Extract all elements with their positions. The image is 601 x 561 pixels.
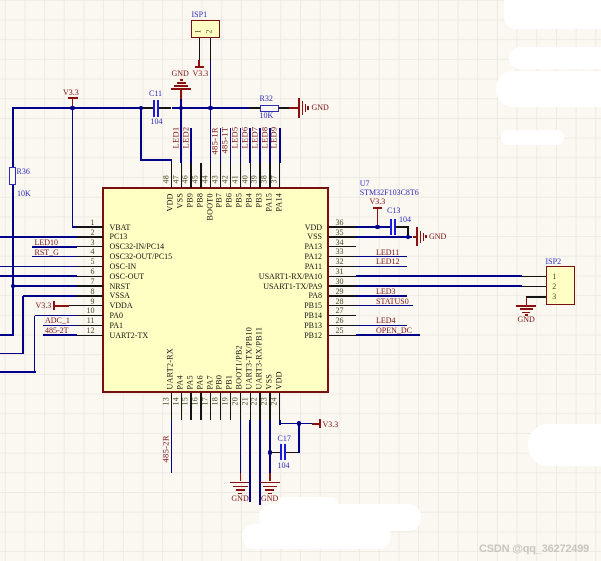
wire C17 right up to VDD wire xyxy=(298,424,300,454)
net label RST_G stub xyxy=(32,256,77,258)
junction pin47 VSS xyxy=(179,106,184,111)
U7 bottom pin names xyxy=(166,347,176,390)
U7 bottom pin numbers 13-24 xyxy=(161,396,171,406)
ISP1 pin 1 line xyxy=(199,38,200,60)
net label STATUS0 stub xyxy=(356,305,413,307)
wire net stub 485-1T xyxy=(230,128,232,163)
junction C13 to pin35 xyxy=(406,235,411,240)
ISP1 pin 2 number xyxy=(205,28,215,33)
junction V3.3 pin36 xyxy=(375,225,380,230)
wire UART3-RX/PB11 down xyxy=(259,420,261,505)
U7 left pin numbers 1-12 xyxy=(91,218,95,227)
ground GND bottom right xyxy=(269,473,271,481)
ISP2 pin 1 line xyxy=(522,276,546,277)
ground GND right of C13 xyxy=(413,236,417,238)
net label LED10 stub xyxy=(32,246,77,248)
wire pin36 VDD xyxy=(356,226,391,228)
power V3.3 at VDDA pin9 xyxy=(36,301,52,310)
net label LED4 xyxy=(376,316,396,325)
wire net stub LED7 xyxy=(259,128,261,163)
wire net stub LED6 xyxy=(249,128,251,163)
U7 top pins 48-37 lines xyxy=(171,163,172,188)
wire USART1-RX to ISP2 pin2 xyxy=(356,285,522,287)
net label LED6 xyxy=(239,126,249,149)
junction NRST pullup xyxy=(11,284,16,289)
net label 485-2R xyxy=(160,434,170,462)
net label LED1 xyxy=(170,126,180,149)
ISP1 pin 2 line xyxy=(210,38,211,60)
wire UART3-TX/PB10 down xyxy=(249,420,251,502)
wire GND segment C11 to R32 xyxy=(172,107,250,109)
capacitor C17 xyxy=(270,452,281,453)
ground GND right of R32 xyxy=(289,107,299,109)
wire VSS pin47 to GND junction xyxy=(180,108,182,163)
whiteout blobs xyxy=(504,0,601,29)
net label ADC_1 stub xyxy=(43,325,77,327)
resistor R36 xyxy=(9,167,16,186)
net label OPEN_DC xyxy=(376,326,412,335)
net label 485-1T xyxy=(220,126,230,154)
ISP2 pin 3 number xyxy=(552,292,556,301)
wire net stub LED5 xyxy=(240,128,242,163)
wire VDD pin24 to V3.3 xyxy=(279,420,281,425)
junction on rail at x72 xyxy=(70,106,75,111)
U7 top pin names xyxy=(166,192,176,211)
U7 bottom pins 13-24 lines xyxy=(171,393,172,420)
power V3.3 top-left xyxy=(72,98,74,107)
net label LED9 xyxy=(269,126,279,149)
wire V3.3 to pin1 VBAT xyxy=(72,108,74,228)
wire net stub LED2 xyxy=(190,128,192,163)
wire net stub LED8 xyxy=(269,128,271,163)
U7 right pin names xyxy=(305,223,322,232)
wire PA11 to ISP2 pin1 xyxy=(356,275,522,277)
net label LED11 xyxy=(376,248,399,257)
U7 left pins 1-12 lines xyxy=(76,226,103,227)
wire PC13 exit left xyxy=(0,236,77,238)
wire R36 bottom to NRST and exit xyxy=(12,185,14,336)
watermark CSDN xyxy=(479,543,589,555)
net label 485-2T xyxy=(45,326,69,335)
wire NRST from R36 xyxy=(13,285,77,287)
power V3.3 under ISP1 xyxy=(198,60,200,66)
net label LED7 xyxy=(249,126,259,149)
net label LED12 stub xyxy=(356,266,407,268)
connector ISP2 xyxy=(546,266,575,305)
ISP2 pin 1 number xyxy=(552,272,556,281)
U7 left pin names xyxy=(110,223,131,232)
wire PA0 exit bottom-left xyxy=(35,315,77,317)
ISP2 pin 2 number xyxy=(552,282,556,291)
ISP2 pin 3 line xyxy=(526,296,547,297)
U7 right pin numbers 36-25 xyxy=(336,218,344,227)
wire VDD pin48 elbow xyxy=(140,108,142,161)
wire V3.3 rail horizontal xyxy=(13,107,141,109)
net label 485-2T stub xyxy=(43,334,77,336)
net label LED11 stub xyxy=(356,256,407,258)
U7 designator xyxy=(360,179,370,188)
net label LED3 xyxy=(376,287,396,296)
net label LED3 stub xyxy=(356,295,407,297)
IC U7 body STM32F103C8T6 xyxy=(102,187,329,393)
wire ISP1 pin2 to BOOT0 xyxy=(210,60,212,163)
U7 right pins 36-25 lines xyxy=(329,226,356,227)
net label LED4 stub xyxy=(356,325,407,327)
wire VDDA pin xyxy=(69,305,77,306)
ground GND under ISP2 xyxy=(516,305,536,307)
net label STATUS0 xyxy=(376,297,409,306)
junction BOOT0 ISP1 xyxy=(208,106,213,111)
wire VSS pin23 down to GND xyxy=(269,420,271,474)
ground GND bottom left xyxy=(240,473,242,481)
capacitor C11 xyxy=(141,107,153,108)
wire OSC-IN exit left xyxy=(0,266,77,268)
wire net stub LED9 xyxy=(279,128,281,163)
net label RST_G xyxy=(35,248,59,257)
junction C11 left xyxy=(139,106,144,111)
capacitor C13 xyxy=(390,219,392,235)
wire BOOT1/PB2 down to GND xyxy=(240,420,242,474)
wire rail corner down to R36 xyxy=(12,107,14,167)
net label LED10 xyxy=(35,238,59,247)
net label 485-1R xyxy=(210,126,220,154)
wire net stub LED1 xyxy=(180,128,182,163)
resistor R32 xyxy=(249,107,260,108)
wire UART2-RX stub down xyxy=(171,420,173,474)
U7 top pin numbers 48-37 xyxy=(161,174,171,184)
wire ISP2 pin3 to GND xyxy=(526,297,528,305)
power V3.3 at VDD pin36 xyxy=(370,197,386,206)
net label LED2 xyxy=(180,126,190,149)
junction VDD C17 xyxy=(297,421,302,426)
net label ADC_1 xyxy=(45,316,70,325)
wire R36 bottom exit left xyxy=(0,334,14,336)
net label OPEN_DC stub xyxy=(356,334,421,336)
wire VSSA exit bottom-left xyxy=(23,295,76,297)
wire pin35 VSS to GND xyxy=(356,236,413,238)
ISP1 pin 1 number xyxy=(194,28,204,33)
wire net stub 485-1R xyxy=(220,128,222,163)
wire OSC-OUT exit left xyxy=(0,275,77,277)
junction C17 left xyxy=(268,450,273,455)
net label LED8 xyxy=(259,126,269,149)
wire C13 right to VSS xyxy=(396,226,409,227)
ISP2 pin 2 line xyxy=(522,286,546,287)
U7 comment STM32F103C8T6 xyxy=(360,188,419,197)
net label LED5 xyxy=(229,126,239,149)
power V3.3 bottom right xyxy=(312,423,319,425)
net label LED12 xyxy=(376,257,400,266)
ground GND inverted above wire xyxy=(180,99,182,108)
connector ISP1 xyxy=(191,20,220,38)
